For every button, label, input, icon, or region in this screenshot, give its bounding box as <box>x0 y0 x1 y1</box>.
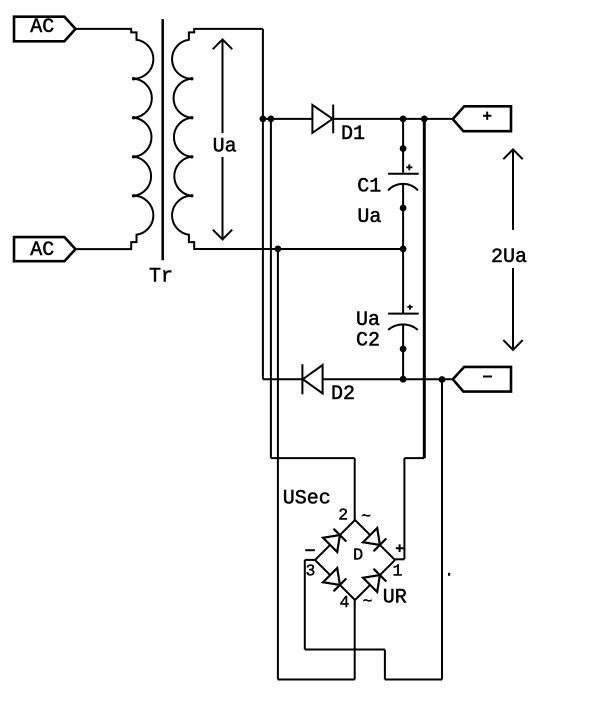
terminal flag AC (top) <box>14 17 76 42</box>
bridge diode (3-4) <box>323 568 346 591</box>
svg-text:3: 3 <box>306 562 316 581</box>
capacitor C1 lead bottom / C2 lead top <box>402 184 404 313</box>
- label node 3 <box>305 549 315 551</box>
terminal flag + <box>453 106 511 131</box>
svg-text:Tr: Tr <box>149 266 173 289</box>
wire D2 row (cathode side) <box>263 378 303 380</box>
wire horizontal at 458 <box>404 457 424 459</box>
wire vertical to bridge ac node 2 branch <box>270 119 272 458</box>
svg-text:1: 1 <box>393 562 403 581</box>
svg-text:Ua: Ua <box>213 135 237 158</box>
wire horizontal to bridge node 2 riser <box>271 457 355 459</box>
wire vertical to bridge node 1 <box>403 458 405 559</box>
wire secondary-top vertical to D2 row <box>262 29 264 379</box>
capacitor C1 plates <box>388 174 419 191</box>
capacitor C2 lead bottom <box>402 325 404 379</box>
plus sign in flag <box>483 112 491 120</box>
capacitor C2 polarity + <box>407 305 412 310</box>
wire secondary-bottom vertical to bridge node 4 branch <box>277 249 279 680</box>
svg-text:AC: AC <box>30 16 54 39</box>
voltage arrow 2Ua <box>503 149 522 350</box>
wire bridge node 2 riser <box>354 458 356 520</box>
wire bridge node 3 stub <box>305 559 315 561</box>
terminal flag - <box>453 367 511 392</box>
svg-text:C2: C2 <box>356 329 380 352</box>
stray mark <box>448 573 450 576</box>
wire node 3 horizontal <box>305 649 385 651</box>
wire node 3 drop <box>384 650 386 680</box>
wire bridge node 4 riser <box>354 600 356 680</box>
svg-text:4: 4 <box>339 593 349 612</box>
wire D1 row (anode side) <box>263 118 313 120</box>
wire bottom-left horizontal <box>278 679 355 681</box>
wire bridge node 1 stub <box>395 558 404 560</box>
wire node 3 vertical <box>304 560 306 650</box>
coil cusp ticks <box>132 77 194 198</box>
bridge diode (4-1) <box>363 569 386 592</box>
voltage arrow Ua (secondary) <box>213 39 232 239</box>
svg-text:USec: USec <box>283 488 331 511</box>
svg-text:2: 2 <box>338 506 348 525</box>
svg-text:Ua: Ua <box>357 206 381 229</box>
svg-text:~: ~ <box>361 507 371 526</box>
transformer T1 primary winding with leads <box>76 29 154 249</box>
bridge edge node2-node1 segments <box>355 520 395 560</box>
capacitor C1 lead top <box>402 119 404 173</box>
svg-text:~: ~ <box>362 592 372 611</box>
wire D2 row (anode side) to - flag <box>323 378 453 380</box>
diode D1 <box>312 105 333 134</box>
transformer T1 secondary winding with leads <box>172 29 403 249</box>
wire thick vertical + output to bridge <box>423 119 426 458</box>
svg-text:UR: UR <box>383 587 407 610</box>
wire D1 row (cathode side) to + flag <box>333 118 453 120</box>
bridge edge node4-node1 segments <box>355 560 395 600</box>
wire bottom-right horizontal <box>385 679 442 681</box>
svg-text:C1: C1 <box>357 176 381 199</box>
minus sign in flag <box>483 376 492 378</box>
terminal flag AC (bottom) <box>14 237 76 261</box>
diode D2 <box>302 364 322 394</box>
transformer T1 core <box>161 19 164 260</box>
svg-text:D1: D1 <box>341 123 365 146</box>
capacitor C1 polarity + <box>406 164 412 170</box>
bridge diode (2-1) <box>363 528 386 551</box>
wire - output vertical <box>441 380 443 680</box>
bridge diode (3-2) <box>323 529 346 552</box>
svg-text:AC: AC <box>30 239 54 262</box>
svg-text:2Ua: 2Ua <box>491 246 527 269</box>
svg-text:D: D <box>353 547 363 566</box>
junction dots <box>260 116 451 576</box>
bridge edge node3-node2 segments <box>315 520 355 560</box>
+ label node 1 <box>396 544 404 552</box>
bridge edge node3-node4 segments <box>315 560 355 600</box>
capacitor C2 plates <box>388 314 419 330</box>
svg-text:D2: D2 <box>331 383 355 406</box>
